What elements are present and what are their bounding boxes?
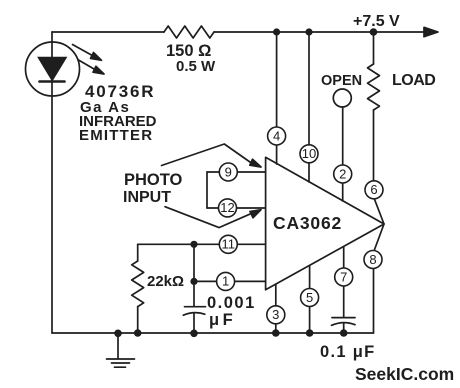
node bottom rail pin3 xyxy=(272,329,280,337)
pin circles xyxy=(217,127,383,324)
wire pin 8 to op-amp output tip xyxy=(374,224,384,252)
pin 12 xyxy=(219,199,237,217)
node bottom rail ground xyxy=(114,330,122,338)
wire load resistor top to rail xyxy=(373,32,375,64)
pin 1 xyxy=(217,272,235,290)
wire bracket joining pins 9 and 12 xyxy=(206,172,208,208)
wire pin 11 xyxy=(138,243,266,245)
svg-text:7: 7 xyxy=(340,269,347,284)
svg-text:CA3062: CA3062 xyxy=(273,213,342,233)
node bottom rail C2 xyxy=(340,329,348,337)
LED emission arrow 2 xyxy=(79,60,98,71)
svg-text:9: 9 xyxy=(225,164,232,179)
node dots xyxy=(114,28,377,337)
node bottom rail 22k xyxy=(134,329,142,337)
node top rail pin4 xyxy=(273,28,280,35)
wire pin 4 (top rail to op-amp) xyxy=(276,32,278,164)
pin 5 xyxy=(301,289,319,307)
wire right vertical (pin 8 to bottom rail) xyxy=(373,268,375,333)
svg-text:6: 6 xyxy=(370,182,377,197)
wire pin 1 xyxy=(194,280,266,282)
resistor LOAD xyxy=(368,64,380,110)
pin 4 xyxy=(268,127,286,145)
ground xyxy=(117,333,119,359)
wire pin 12 xyxy=(207,207,266,209)
pin numbers xyxy=(220,128,377,322)
svg-text:2: 2 xyxy=(339,166,346,181)
LED D1 diode triangle xyxy=(38,57,67,81)
op-amp U1 CA3062 triangle xyxy=(266,157,384,289)
svg-text:OPEN: OPEN xyxy=(321,73,362,89)
pointer line lower (PHOTO INPUT to pin 12 wire) xyxy=(165,207,252,228)
svg-text:LOAD: LOAD xyxy=(392,72,435,89)
svg-text:22kΩ: 22kΩ xyxy=(147,273,184,290)
svg-text:μF: μF xyxy=(209,311,236,329)
pin 3 xyxy=(267,306,285,324)
wire capacitor C1 top lead xyxy=(193,244,195,306)
wire pin 7 / capacitor C2 top lead xyxy=(343,247,345,317)
wire pin 6 to load resistor xyxy=(373,110,375,182)
capacitor C2 0.1uF plates xyxy=(332,317,355,319)
wire top rail xyxy=(52,31,424,33)
wire capacitor C1 bottom lead xyxy=(193,314,195,334)
pin 6 xyxy=(365,181,383,199)
wire 22k top xyxy=(137,244,139,261)
pin 8 xyxy=(364,251,382,269)
pin 9 xyxy=(219,163,237,181)
wire bottom rail xyxy=(52,332,374,334)
svg-text:11: 11 xyxy=(222,237,236,252)
resistor R2 22k xyxy=(132,261,144,307)
wire pin 9 xyxy=(207,171,266,173)
svg-text:0.5 W: 0.5 W xyxy=(176,58,216,75)
node pin11 / C1 xyxy=(190,241,197,248)
svg-text:8: 8 xyxy=(369,252,376,267)
wire pin 3 xyxy=(275,285,277,333)
svg-text:3: 3 xyxy=(272,307,279,322)
node bottom rail pin5 xyxy=(306,329,314,337)
svg-text:0.1 μF: 0.1 μF xyxy=(320,343,376,361)
svg-text:PHOTO: PHOTO xyxy=(124,171,183,189)
wire pin 2 (open terminal to op-amp) xyxy=(342,107,344,201)
svg-text:10: 10 xyxy=(302,146,316,161)
svg-text:+7.5 V: +7.5 V xyxy=(353,13,400,30)
pin 7 xyxy=(335,268,353,286)
pin 10 xyxy=(300,145,318,163)
wire op-amp output tip to pin 6 xyxy=(374,198,384,224)
wire pin 5 xyxy=(309,266,311,333)
pin 11 xyxy=(219,235,237,253)
svg-text:SeekIC.com: SeekIC.com xyxy=(355,364,454,384)
wire capacitor C2 bottom lead xyxy=(343,324,345,333)
svg-text:5: 5 xyxy=(306,290,313,305)
svg-text:0.001: 0.001 xyxy=(207,294,256,312)
pin 2 xyxy=(334,165,352,183)
node top rail pin10 xyxy=(305,28,312,35)
node bottom rail C1 xyxy=(190,330,198,338)
LED D1 circle xyxy=(26,42,80,96)
pointer line upper (PHOTO INPUT to pin 9 wire) xyxy=(162,144,254,166)
svg-text:12: 12 xyxy=(220,200,234,215)
wire left rail xyxy=(51,32,53,333)
capacitor C1 0.001uF plates xyxy=(185,306,206,308)
LED emission arrow 1 xyxy=(73,45,96,58)
wire 22k bottom xyxy=(137,307,139,333)
node top rail load xyxy=(370,28,378,36)
svg-text:1: 1 xyxy=(222,274,229,289)
svg-text:4: 4 xyxy=(273,128,280,143)
power arrow +7.5V xyxy=(424,31,425,33)
svg-text:EMITTER: EMITTER xyxy=(79,127,153,144)
wire pin 10 (top rail to op-amp) xyxy=(308,32,310,182)
resistor R1 150 ohm xyxy=(164,26,214,38)
node pin1 / C1 xyxy=(190,278,197,285)
LED D1 cathode bar xyxy=(40,80,65,83)
open terminal circle xyxy=(333,89,351,107)
svg-text:INPUT: INPUT xyxy=(123,189,171,206)
